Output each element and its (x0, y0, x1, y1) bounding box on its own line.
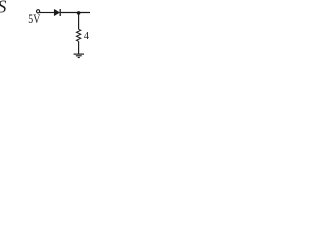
svg-text:S: S (0, 0, 6, 16)
resistor R1 (77, 29, 81, 41)
ground (74, 54, 85, 57)
wire resistor to ground (78, 41, 80, 54)
terminal 5V (37, 10, 40, 13)
wire junction to resistor (78, 13, 80, 29)
svg-text:4: 4 (84, 31, 90, 42)
wire from 5V terminal to diode anode (40, 12, 55, 14)
junction node (77, 11, 81, 15)
diode D1 (54, 9, 60, 16)
wire from diode cathode to right edge (61, 12, 90, 14)
svg-text:5V: 5V (28, 11, 40, 26)
